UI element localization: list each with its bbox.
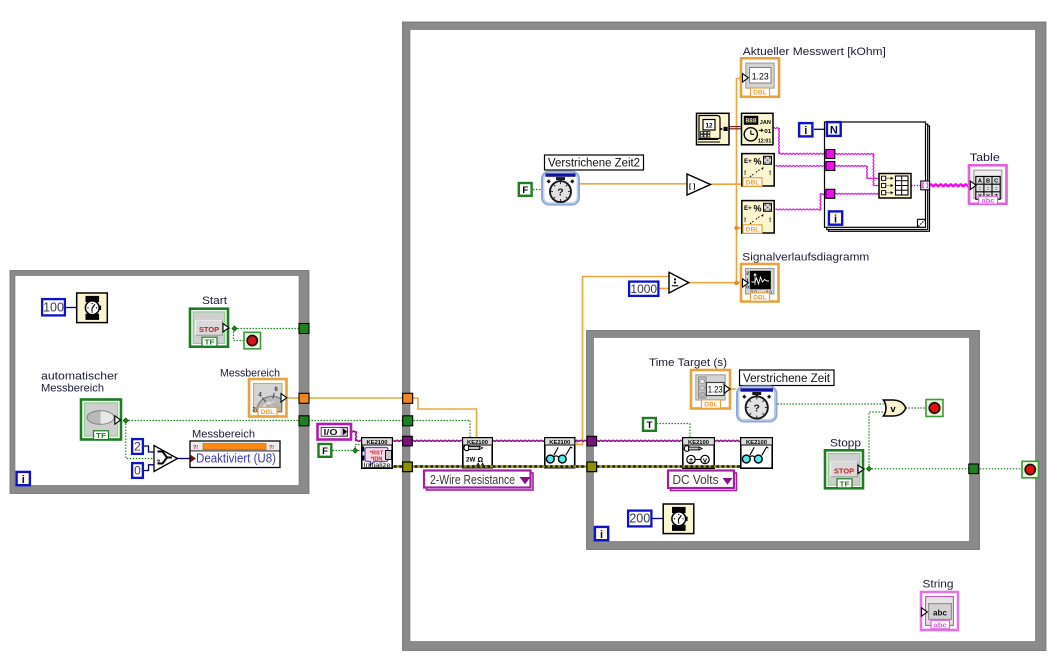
svg-text:KE2100: KE2100 [688,440,709,446]
svg-text:KE2100: KE2100 [367,440,388,446]
svg-text:?!: ?! [193,445,198,451]
svg-text:DBL: DBL [261,409,275,416]
svg-text:DBL: DBL [746,227,760,234]
svg-text:TF: TF [840,479,851,488]
svg-text:abc: abc [933,608,947,618]
svg-text:1.23: 1.23 [708,385,723,395]
svg-text:12:01: 12:01 [758,138,772,144]
svg-text:?: ? [157,460,161,466]
svg-text:TF: TF [96,431,107,440]
svg-text:Aktueller Messwert [kOhm]: Aktueller Messwert [kOhm] [743,46,886,58]
svg-text::: : [995,186,997,192]
svg-text:100: 100 [43,300,64,314]
svg-text:F: F [322,446,328,457]
svg-text:KE2100: KE2100 [549,440,570,446]
svg-text:abc: abc [934,621,947,630]
svg-text:KE2100: KE2100 [746,440,767,446]
svg-text:KE2100: KE2100 [467,440,488,446]
svg-text:B: B [986,179,990,185]
svg-text:Messbereich: Messbereich [41,383,104,395]
svg-text:I/O: I/O [324,428,338,437]
svg-text:2-Wire Resistance: 2-Wire Resistance [430,473,515,487]
svg-text:12: 12 [705,123,713,130]
svg-text:?: ? [557,187,563,199]
svg-text:1000: 1000 [630,282,657,296]
svg-text:JAN: JAN [760,120,771,126]
svg-text:Signalverlaufsdiagramm: Signalverlaufsdiagramm [742,252,869,264]
svg-text:DC Volts: DC Volts [673,473,719,487]
svg-text:1.23: 1.23 [752,71,769,82]
svg-text:abc: abc [982,196,995,205]
svg-text:!: ! [744,217,746,224]
svg-text:0: 0 [746,285,749,291]
svg-text:DBL: DBL [704,402,718,409]
svg-text:2W: 2W [466,457,475,464]
svg-text:TF: TF [205,338,216,347]
svg-text:C: C [994,179,998,185]
svg-text:String: String [923,579,954,591]
svg-text::: : [987,186,989,192]
svg-text:Table: Table [970,152,1000,164]
svg-text:Deaktiviert (U8): Deaktiviert (U8) [196,452,276,466]
svg-text:Verstrichene Zeit2: Verstrichene Zeit2 [548,158,640,170]
svg-text:%: % [754,156,762,166]
svg-text:N: N [830,124,838,136]
svg-text:F: F [522,185,528,196]
svg-text:!: ! [744,170,746,177]
svg-text:Messbereich: Messbereich [192,429,255,441]
svg-text:i: i [804,125,807,137]
svg-text:Start: Start [202,295,227,307]
svg-text:E+: E+ [744,158,752,165]
svg-text:Time Target (s): Time Target (s) [649,357,727,369]
svg-text:!: ! [769,170,771,177]
svg-text:888: 888 [746,119,758,125]
svg-text:automatischer: automatischer [41,371,118,383]
svg-text:i: i [834,213,837,225]
svg-text:i: i [22,474,25,486]
svg-text:0: 0 [134,464,141,478]
svg-text:±: ± [689,458,693,465]
svg-text:A: A [978,179,982,185]
svg-text:2: 2 [134,440,141,454]
svg-text:v: v [890,404,896,415]
svg-text:%: % [754,203,762,213]
svg-text:T: T [647,420,653,431]
svg-text:?!: ?! [269,445,274,451]
svg-text:i: i [600,529,603,541]
svg-text:2: 2 [746,271,749,277]
svg-text:!: ! [769,217,771,224]
svg-text:DBL: DBL [746,180,760,187]
svg-text::: : [979,186,981,192]
svg-text:E+: E+ [744,205,752,212]
svg-text:?: ? [754,403,760,415]
svg-text:STOP: STOP [199,327,219,334]
svg-text:STOP: STOP [834,469,854,476]
svg-text:[ ]: [ ] [689,183,695,190]
svg-text:200: 200 [629,512,650,526]
svg-text:Stopp: Stopp [830,438,861,450]
svg-text:DBL: DBL [753,295,767,302]
svg-text:Verstrichene Zeit: Verstrichene Zeit [743,373,831,385]
svg-text:DBL: DBL [753,90,767,97]
svg-text:01: 01 [764,129,772,135]
